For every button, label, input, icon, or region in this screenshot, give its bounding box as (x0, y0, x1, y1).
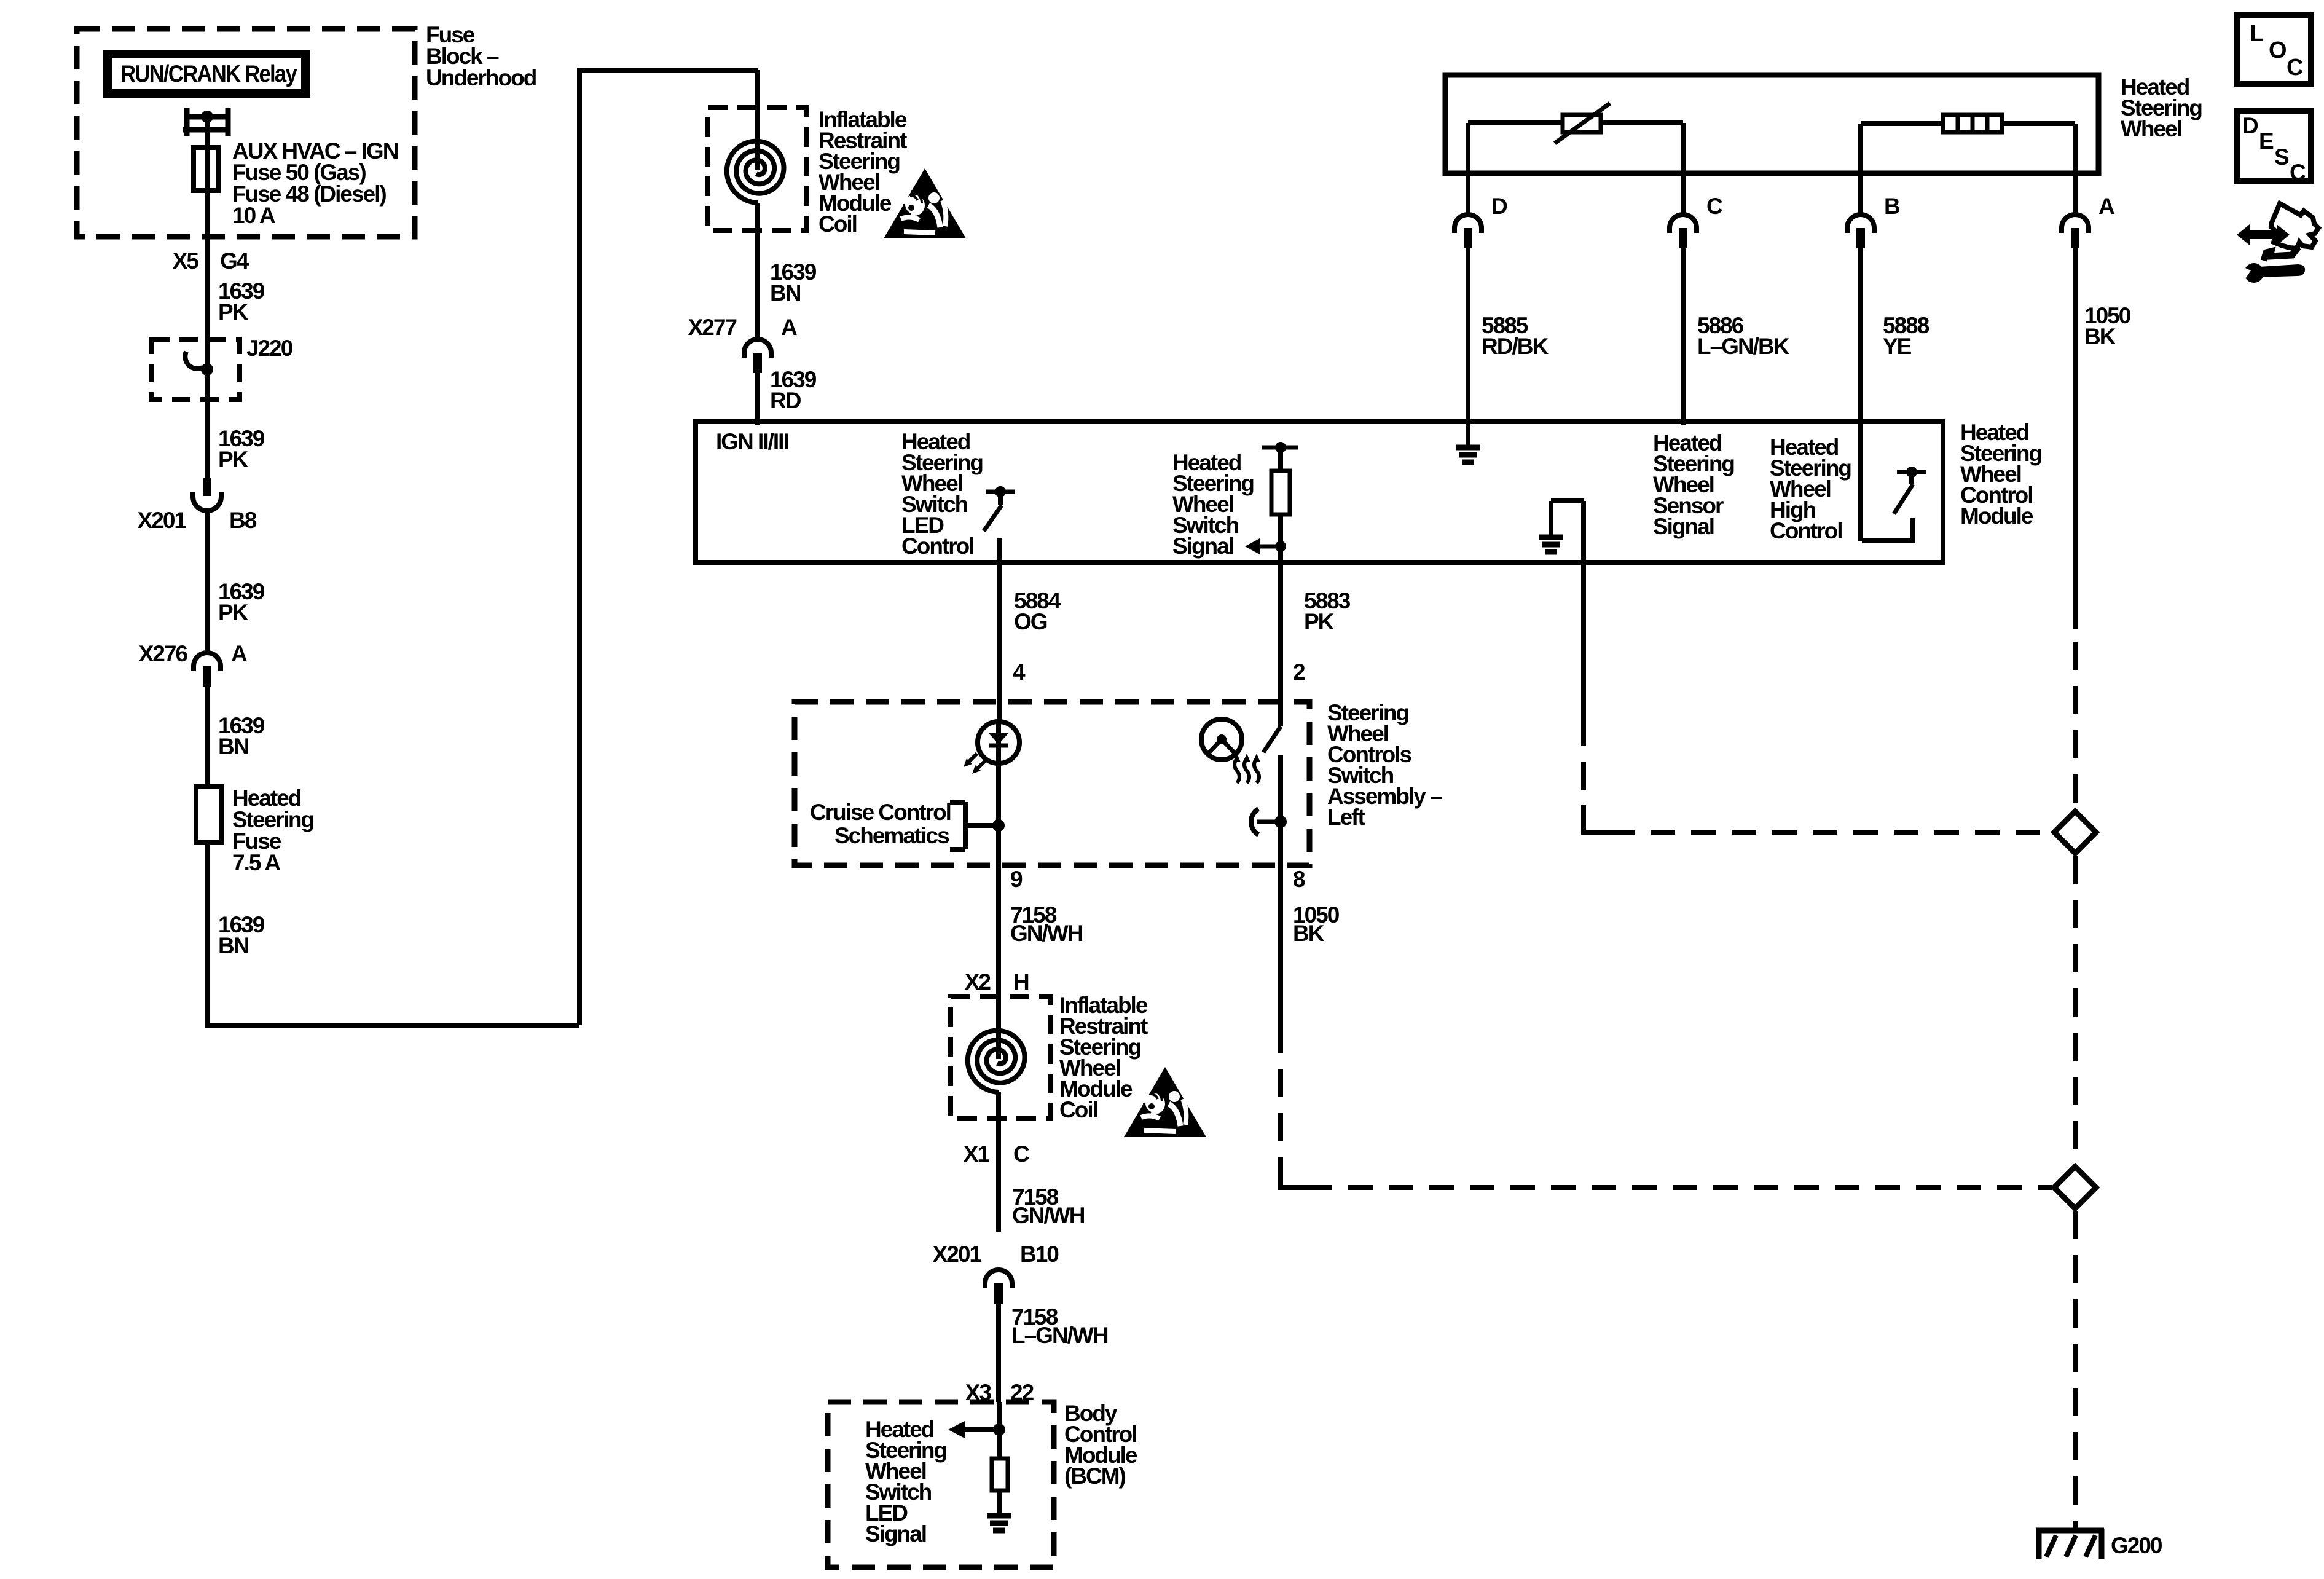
svg-text:X1: X1 (964, 1141, 990, 1167)
svg-text:E: E (2259, 128, 2274, 154)
svg-text:S: S (2274, 144, 2289, 170)
svg-text:C: C (1706, 194, 1722, 219)
svg-text:X276: X276 (139, 641, 188, 666)
svg-text:Schematics: Schematics (834, 823, 949, 848)
svg-text:2: 2 (1293, 660, 1305, 685)
svg-text:Coil: Coil (1059, 1097, 1097, 1122)
svg-text:H: H (1013, 969, 1029, 994)
svg-text:BK: BK (2084, 324, 2116, 349)
svg-text:Wheel: Wheel (2121, 116, 2181, 141)
svg-text:D: D (1491, 194, 1507, 219)
svg-text:B8: B8 (229, 508, 257, 533)
svg-text:8: 8 (1293, 867, 1305, 892)
svg-text:L–GN/BK: L–GN/BK (1697, 334, 1790, 359)
svg-text:RUN/CRANK Relay: RUN/CRANK Relay (120, 61, 297, 87)
svg-text:4: 4 (1013, 660, 1026, 685)
svg-text:C: C (1013, 1141, 1029, 1167)
svg-text:RD/BK: RD/BK (1482, 334, 1549, 359)
svg-text:L: L (2250, 21, 2264, 47)
svg-text:X201: X201 (138, 508, 187, 533)
svg-text:BN: BN (218, 734, 249, 759)
svg-text:BN: BN (218, 933, 249, 958)
svg-text:B10: B10 (1020, 1242, 1059, 1267)
svg-text:GN/WH: GN/WH (1010, 921, 1083, 946)
svg-text:G200: G200 (2111, 1533, 2162, 1558)
svg-text:X2: X2 (965, 969, 991, 994)
svg-text:IGN II/III: IGN II/III (716, 429, 788, 454)
svg-text:7.5 A: 7.5 A (232, 850, 280, 875)
svg-text:OG: OG (1014, 609, 1047, 634)
svg-text:Signal: Signal (1653, 514, 1714, 539)
svg-text:Module: Module (1960, 503, 2033, 529)
svg-text:10 A: 10 A (232, 203, 275, 228)
svg-text:G4: G4 (220, 248, 249, 274)
svg-text:Control: Control (901, 534, 974, 559)
svg-text:B: B (1884, 194, 1900, 219)
svg-text:Control: Control (1770, 518, 1842, 543)
svg-text:X201: X201 (933, 1242, 982, 1267)
svg-text:Cruise Control: Cruise Control (810, 800, 951, 825)
svg-text:(BCM): (BCM) (1064, 1463, 1126, 1489)
svg-text:GN/WH: GN/WH (1012, 1203, 1085, 1228)
svg-text:BK: BK (1293, 921, 1325, 946)
svg-text:YE: YE (1883, 334, 1912, 359)
svg-text:BN: BN (770, 280, 801, 305)
svg-text:Coil: Coil (819, 211, 857, 237)
svg-text:RD: RD (770, 388, 801, 413)
svg-text:PK: PK (218, 600, 249, 625)
svg-text:D: D (2242, 113, 2258, 138)
svg-text:C: C (2290, 160, 2306, 185)
svg-text:L–GN/WH: L–GN/WH (1011, 1323, 1108, 1348)
svg-text:Left: Left (1327, 805, 1365, 830)
svg-text:X277: X277 (688, 315, 737, 340)
svg-text:9: 9 (1010, 867, 1023, 892)
svg-text:PK: PK (218, 447, 249, 472)
svg-text:X5: X5 (173, 248, 199, 274)
svg-text:A: A (781, 315, 797, 340)
svg-text:A: A (2098, 194, 2114, 219)
svg-text:A: A (231, 641, 247, 666)
svg-text:Signal: Signal (865, 1521, 926, 1546)
svg-text:Signal: Signal (1172, 534, 1233, 559)
svg-text:C: C (2287, 55, 2303, 81)
svg-text:J220: J220 (246, 336, 293, 361)
svg-text:PK: PK (1304, 609, 1335, 634)
svg-text:O: O (2269, 37, 2286, 63)
svg-text:PK: PK (218, 299, 249, 325)
svg-text:Underhood: Underhood (426, 65, 536, 90)
